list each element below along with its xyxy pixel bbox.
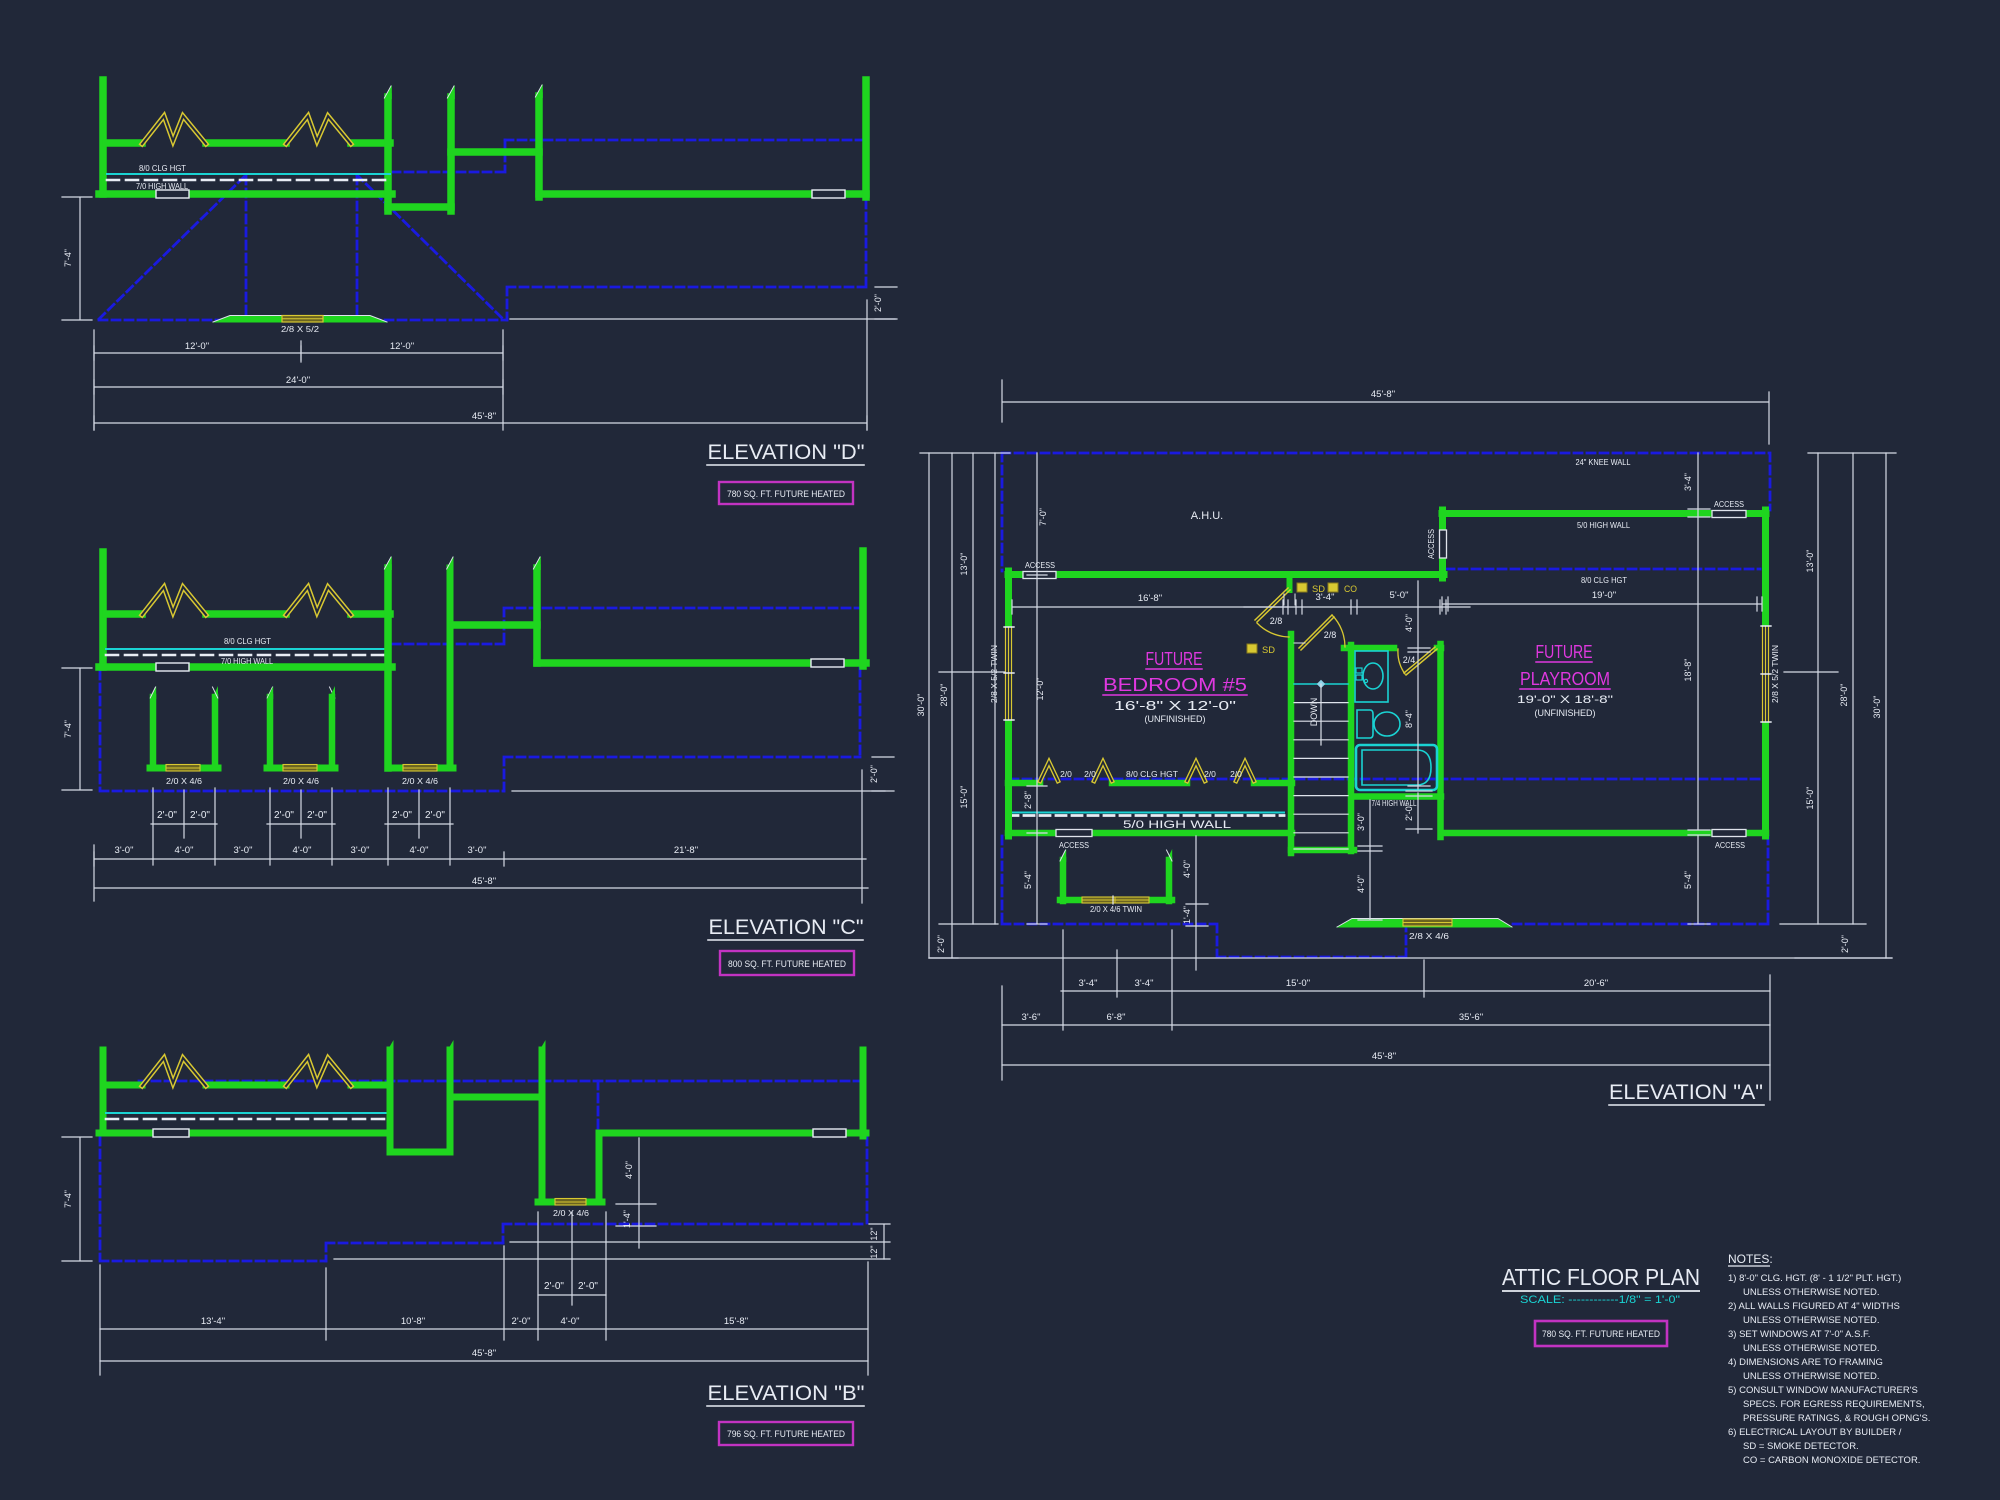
wire: elev B blue dashed ground left: [100, 1137, 326, 1261]
symbol: SD CO detectors at hall: [1297, 583, 1307, 592]
wall: elev D long right bottom wall: [539, 190, 866, 198]
wall: elev C H bar: [453, 621, 537, 629]
svg-text:CO: CO: [1344, 584, 1357, 594]
svg-text:20'-6": 20'-6": [1584, 978, 1608, 989]
wire: elev B blue dashed middle step: [326, 1243, 503, 1261]
svg-text:2'-0": 2'-0": [873, 294, 883, 312]
wire: elev B white dashed line: [106, 1118, 387, 1121]
svg-text:PRESSURE RATINGS, & ROUGH OPNG: PRESSURE RATINGS, & ROUGH OPNG'S.: [1743, 1413, 1930, 1424]
svg-text:12'-0": 12'-0": [390, 341, 414, 352]
svg-text:A.H.U.: A.H.U.: [1191, 510, 1223, 522]
window: elev B window in right band: [813, 1129, 846, 1137]
wall: plan 5/0 high wall south: [1008, 830, 1292, 837]
svg-text:45'-8": 45'-8": [472, 1348, 496, 1359]
wall: plan bedroom south wall segments: [1008, 780, 1292, 787]
wire: elev C blue dashed ground left: [100, 671, 504, 791]
svg-text:796 SQ. FT. FUTURE HEATED: 796 SQ. FT. FUTURE HEATED: [727, 1429, 845, 1440]
window: elev C window in 7/0 wall: [156, 663, 189, 671]
dim: elev D row 12'-0" / 12'-0": [94, 346, 503, 360]
svg-text:12'-0": 12'-0": [1035, 678, 1045, 701]
dim: elev C main row 3'-0"/4'-0": [94, 852, 866, 866]
svg-text:24'-0": 24'-0": [286, 375, 310, 386]
window: plan access hatch top-left: [1023, 572, 1056, 579]
svg-text:12": 12": [869, 1245, 879, 1258]
wire: plan cyan 5/0 high wall line: [1008, 812, 1284, 814]
label: magenta box 780 SQ FT plan: [1535, 1321, 1667, 1346]
window: elev C window in right band: [811, 659, 844, 667]
window: elev C U-window 3 right jamb full height wall: [447, 568, 454, 768]
svg-text:8/0 CLG HGT: 8/0 CLG HGT: [1581, 575, 1627, 585]
wall: elev D top plate band segments: [106, 139, 390, 147]
svg-text:16'-8" X 12'-0": 16'-8" X 12'-0": [1114, 699, 1236, 713]
svg-text:2'-0": 2'-0": [1840, 935, 1850, 953]
wire: elev C blue dashed right drop and base: [504, 668, 860, 791]
svg-text:ACCESS: ACCESS: [1714, 500, 1744, 509]
wall: elev B bottom band left: [99, 1130, 390, 1137]
svg-text:13'-0": 13'-0": [1805, 550, 1815, 573]
svg-text:BEDROOM #5: BEDROOM #5: [1103, 675, 1247, 695]
svg-text:7'-4": 7'-4": [63, 1190, 73, 1208]
svg-text:2'-0": 2'-0": [157, 810, 177, 821]
wall: plan stairwell right wall: [1348, 645, 1355, 851]
window: elev B window in bottom band: [153, 1129, 189, 1137]
wall: elev C spike B: [533, 568, 541, 663]
wall: elev C right wall: [859, 551, 867, 666]
svg-text:PLAYROOM: PLAYROOM: [1520, 669, 1610, 689]
svg-text:19'-0": 19'-0": [1592, 590, 1616, 601]
svg-text:7'-4": 7'-4": [63, 249, 73, 267]
svg-text:12": 12": [869, 1227, 879, 1240]
svg-text:15'-0": 15'-0": [959, 786, 969, 809]
svg-text:2'-0": 2'-0": [936, 935, 946, 953]
svg-text:21'-8": 21'-8": [674, 845, 698, 856]
wire: elev D blue dashed hip diagonal right: [357, 175, 504, 320]
wall: plan bathroom bottom wall: [1354, 793, 1441, 800]
label: magenta box 796 SQ FT: [719, 1422, 853, 1445]
wire: elev B blue dashed top plate line: [139, 1080, 862, 1083]
wire: elev D white dashed 7/0 high wall line: [107, 179, 390, 182]
dim: plan 4'-0" 8'-4" vertical at bath: [1408, 581, 1430, 789]
svg-text:2/8 X 5/2 TWIN: 2/8 X 5/2 TWIN: [1770, 645, 1780, 703]
dim: elev D extension lines: [94, 330, 503, 430]
wall: plan bathroom corner at door: [1437, 645, 1441, 652]
wall: elev C tall middle wall: [384, 568, 392, 768]
svg-text:30'-0": 30'-0": [916, 694, 926, 717]
svg-text:45'-8": 45'-8": [472, 411, 496, 422]
dim: plan bottom row 3'-4" 3'-4" 15'-0" 20'-6": [1061, 990, 1770, 992]
svg-text:3'-4": 3'-4": [1079, 978, 1098, 989]
wall: elev D middle spike wall 1: [384, 97, 392, 211]
svg-text:ACCESS: ACCESS: [1059, 841, 1089, 850]
window: plan dormer window 2/0x4/6 twin (bedroom south): [1063, 860, 1169, 901]
svg-text:28'-0": 28'-0": [1839, 684, 1849, 707]
window: elev B yellow dormer zigzag 2: [286, 1058, 351, 1086]
wall: elev B left wall: [100, 1050, 107, 1133]
svg-text:15'-0": 15'-0": [1805, 787, 1815, 810]
svg-text:2/8 X 5/2 TWIN: 2/8 X 5/2 TWIN: [989, 645, 999, 703]
wall: elev B long right bottom wall: [599, 1130, 866, 1137]
svg-text:2/8 X 5/2: 2/8 X 5/2: [281, 324, 319, 334]
dim: elev B 4'-0" / 1'-4" vertical: [616, 1138, 656, 1248]
window: plan left wall 2/8x5/2 twin: [1004, 627, 1013, 720]
wire: elev C blue dashed upper right line: [392, 608, 859, 644]
wall: elev B right wall: [860, 1050, 867, 1136]
dim: elev B main row: [100, 1328, 868, 1330]
svg-text:8'-4": 8'-4": [1404, 710, 1414, 728]
wire: elev D blue dashed ridge line upper: [505, 139, 863, 142]
svg-text:4'-0": 4'-0": [410, 845, 429, 856]
svg-text:3'-0": 3'-0": [1356, 813, 1366, 831]
dim: plan 2'-0" vertical at bath wall: [1406, 791, 1432, 833]
wire: elev C white dashed 7/0 line: [106, 654, 390, 657]
wire: plan blue dashed roof outline top: [1002, 453, 1770, 571]
svg-text:45'-8": 45'-8": [472, 876, 496, 887]
svg-text:SCALE: ------------1/8" = 1'-0: SCALE: ------------1/8" = 1'-0": [1520, 1294, 1680, 1306]
wall: elev C left wall: [99, 552, 107, 667]
svg-text:ELEVATION "A": ELEVATION "A": [1609, 1081, 1763, 1104]
svg-text:UNLESS OTHERWISE NOTED.: UNLESS OTHERWISE NOTED.: [1743, 1287, 1880, 1298]
svg-text:45'-8": 45'-8": [1372, 1051, 1396, 1062]
wire: elev B blue dashed hidden jamb: [597, 1081, 600, 1130]
svg-text:4'-0": 4'-0": [624, 1161, 634, 1179]
stairs: direction line and DOWN label: [1320, 684, 1322, 745]
dim: elev B right 12" 12" stack: [869, 1224, 890, 1259]
window: elev D 2/8x5/2 plan window trapezoid: [212, 316, 388, 323]
svg-text:ACCESS: ACCESS: [1715, 841, 1745, 850]
svg-text:NOTES:: NOTES:: [1728, 1252, 1773, 1266]
svg-text:2/0: 2/0: [1084, 769, 1096, 779]
svg-text:SD: SD: [1262, 645, 1276, 655]
svg-text:2/8: 2/8: [1270, 616, 1283, 626]
fixture: toilet bowl: [1374, 712, 1400, 736]
wire: elev D blue dashed step at x505: [392, 140, 505, 172]
svg-text:10'-8": 10'-8": [401, 1316, 425, 1327]
svg-text:ELEVATION "D": ELEVATION "D": [708, 441, 865, 464]
fixture: bath tub: [1356, 745, 1437, 790]
dim: elev C white base line right: [512, 790, 885, 792]
svg-text:8/0 CLG HGT: 8/0 CLG HGT: [1126, 769, 1178, 779]
fixture: toilet tank: [1357, 710, 1373, 738]
svg-text:ACCESS: ACCESS: [1025, 561, 1055, 570]
door: plan hall door 2/8 leaf and swing: [1299, 615, 1334, 650]
svg-text:3'-0": 3'-0": [468, 845, 487, 856]
svg-text:ELEVATION "C": ELEVATION "C": [709, 916, 864, 939]
svg-text:UNLESS OTHERWISE NOTED.: UNLESS OTHERWISE NOTED.: [1743, 1371, 1880, 1382]
svg-text:16'-8": 16'-8": [1138, 593, 1162, 604]
label: magenta box 800 SQ FT: [720, 951, 854, 975]
dim: plan left vertical lines: [929, 453, 995, 958]
svg-text:780 SQ. FT. FUTURE HEATED: 780 SQ. FT. FUTURE HEATED: [727, 489, 845, 500]
dim: elev C right 2'-0": [862, 757, 894, 903]
dim: plan 3'-4" 5'-0" row: [1244, 600, 1470, 614]
svg-text:800 SQ. FT. FUTURE HEATED: 800 SQ. FT. FUTURE HEATED: [728, 959, 846, 970]
dim: elev C left height 7'-4": [62, 668, 92, 790]
window: elev C U-window 2 sill: [267, 765, 335, 772]
svg-text:2/0 X 4/6: 2/0 X 4/6: [166, 776, 202, 786]
svg-text:(UNFINISHED): (UNFINISHED): [1145, 714, 1206, 724]
svg-text:5/0 HIGH WALL: 5/0 HIGH WALL: [1123, 819, 1231, 831]
svg-text:2/0: 2/0: [1060, 769, 1072, 779]
dim: plan bottom base line: [929, 957, 1892, 959]
wall: elev C 7/0 wall bottom band: [99, 663, 392, 671]
wire: plan blue dashed 8/0 clg line south: [1010, 778, 1760, 781]
wall: elev B middle wall 2: [447, 1050, 454, 1152]
svg-text:3'-4": 3'-4": [1683, 473, 1693, 491]
dim: elev D white base line: [510, 318, 895, 320]
dim: plan right vertical lines: [1818, 453, 1886, 958]
svg-text:5'-4": 5'-4": [1683, 871, 1693, 889]
svg-text:ELEVATION "B": ELEVATION "B": [708, 1382, 865, 1405]
svg-text:4'-0": 4'-0": [293, 845, 312, 856]
window: elev B deep window left jamb: [539, 1097, 546, 1202]
window: elev C U-window 2 jambs: [270, 697, 332, 768]
svg-text:(UNFINISHED): (UNFINISHED): [1535, 708, 1596, 718]
svg-text:1'-4": 1'-4": [1182, 906, 1192, 924]
dim: elev B white base lines: [334, 1242, 890, 1259]
wall: plan playroom right wall: [1762, 510, 1769, 836]
svg-text:2/0: 2/0: [1230, 769, 1242, 779]
svg-text:2/0 X 4/6: 2/0 X 4/6: [283, 776, 319, 786]
wire: elev C cyan 8/0 ceiling line: [106, 648, 390, 650]
svg-text:FUTURE: FUTURE: [1536, 642, 1593, 662]
window: plan access hatch playroom south: [1712, 830, 1746, 837]
svg-text:2/0 X 4/6: 2/0 X 4/6: [402, 776, 438, 786]
dim: plan 16'-8" row: [1012, 600, 1288, 614]
window: elev C yellow dormer zigzag 2: [286, 587, 351, 615]
wall: elev D middle spike wall 2: [447, 97, 455, 211]
svg-text:SD = SMOKE DETECTOR.: SD = SMOKE DETECTOR.: [1743, 1441, 1859, 1452]
svg-text:4'-0": 4'-0": [1182, 860, 1192, 878]
dim: elev C window extension lines: [153, 788, 450, 865]
svg-text:45'-8": 45'-8": [1371, 389, 1395, 400]
window: elev B deep window right jamb: [596, 1133, 603, 1202]
svg-text:2) ALL WALLS FIGURED AT 4" WI: 2) ALL WALLS FIGURED AT 4" WIDTHS: [1728, 1301, 1900, 1312]
label: magenta box 780 SQ FT: [719, 482, 853, 504]
dim: elev B left height 7'-4": [62, 1137, 92, 1261]
wire: elev D blue dashed ground line left: [99, 319, 507, 322]
svg-text:7'-4": 7'-4": [63, 720, 73, 738]
door: plan bedroom door 2/8 leaf and swing: [1255, 588, 1290, 622]
svg-text:4'-0": 4'-0": [1404, 614, 1414, 632]
wall: plan playroom left upper wall: [1439, 510, 1446, 578]
wire: plan blue dashed 8/0 clg line playroom top: [1446, 568, 1760, 571]
wall: plan left wall: [1005, 571, 1012, 836]
wall: elev B top plate band segments: [106, 1082, 390, 1089]
window: plan playroom south window 2/8x4/6 trapezoid: [1336, 919, 1513, 928]
wire: elev B blue dashed right drop: [503, 1137, 867, 1243]
dim: plan bottom extension verticals: [1002, 930, 1770, 1100]
svg-text:30'-0": 30'-0": [1872, 696, 1882, 719]
svg-text:ATTIC FLOOR PLAN: ATTIC FLOOR PLAN: [1502, 1264, 1700, 1290]
wire: elev D blue dashed vertical hip projections: [246, 176, 357, 319]
dim: elev D left height 7'-4": [62, 197, 92, 320]
svg-text:4) DIMENSIONS ARE TO FRAMING: 4) DIMENSIONS ARE TO FRAMING: [1728, 1357, 1883, 1368]
svg-text:24" KNEE WALL: 24" KNEE WALL: [1576, 457, 1631, 467]
dim: plan 3'-0" 4'-0" vertical at stairs: [1358, 800, 1382, 920]
svg-text:7/0 HIGH WALL: 7/0 HIGH WALL: [136, 182, 188, 191]
window: plan playroom right 2/8x5/2 twin: [1761, 626, 1770, 722]
svg-text:2'-0": 2'-0": [425, 810, 445, 821]
dim: elev C 2'-0" pair rows: [151, 823, 453, 825]
svg-text:3'-0": 3'-0": [351, 845, 370, 856]
svg-text:2/8: 2/8: [1324, 630, 1337, 640]
svg-text:SPECS. FOR EGRESS REQUIREMENTS: SPECS. FOR EGRESS REQUIREMENTS,: [1743, 1399, 1925, 1410]
svg-text:19'-0" X 18'-8": 19'-0" X 18'-8": [1517, 694, 1613, 706]
dim: plan bottom row 3'-6" 6'-8" 35'-6": [1002, 1024, 1770, 1026]
wall: elev B right spike: [539, 1050, 546, 1097]
svg-text:15'-8": 15'-8": [724, 1316, 748, 1327]
svg-text:FUTURE: FUTURE: [1146, 649, 1203, 669]
svg-text:7'-0": 7'-0": [1038, 508, 1048, 526]
dim: elev D row 24'-0": [94, 380, 503, 394]
svg-text:5'-4": 5'-4": [1023, 871, 1033, 889]
window: elev D window in right wall band: [812, 190, 845, 198]
dim: elev C row 45'-8": [94, 845, 868, 901]
window: elev C U-window 1 jambs: [153, 697, 215, 768]
svg-text:1) 8'-0" CLG. HGT. (8' - 1 1/: 1) 8'-0" CLG. HGT. (8' - 1 1/2" PLT. HGT…: [1728, 1273, 1901, 1284]
wall: elev C long right bottom wall: [537, 659, 866, 667]
wall: elev B H bar: [450, 1094, 542, 1101]
svg-text:3'-4": 3'-4": [1316, 592, 1335, 603]
wall: elev D 7/0 high wall bottom band: [99, 190, 392, 198]
wire: elev D blue dashed ground line right raised: [507, 200, 866, 320]
wall: elev D right wall: [862, 80, 870, 197]
dim: elev B extension lines: [100, 1212, 868, 1375]
svg-text:5'-0": 5'-0": [1390, 590, 1409, 601]
stairs: treads: [1294, 703, 1348, 849]
svg-text:2/0 X 4/6 TWIN: 2/0 X 4/6 TWIN: [1090, 904, 1142, 914]
wall: plan hall/bath top wall: [1344, 645, 1394, 652]
dim: elev D right 2'-0": [867, 287, 897, 430]
svg-text:2'-0": 2'-0": [578, 1281, 598, 1292]
svg-text:DOWN: DOWN: [1309, 698, 1319, 727]
svg-text:ACCESS: ACCESS: [1427, 529, 1436, 559]
dim: plan 4'-0" 1'-4" vertical at bedroom dormer: [1186, 836, 1208, 970]
dim: plan 19'-0" row: [1442, 597, 1762, 611]
dim: plan left 7'-0" and 12'-0" vertical: [1027, 453, 1047, 786]
svg-text:2/4: 2/4: [1403, 655, 1416, 665]
svg-text:4'-0": 4'-0": [175, 845, 194, 856]
svg-text:2'-0": 2'-0": [274, 810, 294, 821]
window: elev B yellow dormer zigzag 1: [142, 1058, 206, 1086]
symbol: SD detector bedroom: [1247, 644, 1257, 653]
door: plan bath door 2/4 leaf and swing: [1404, 647, 1437, 675]
stairs: cyan break line with diamond: [1294, 683, 1348, 685]
window: elev D window in 7/0 wall: [156, 190, 189, 198]
fixture: bath vanity: [1355, 651, 1388, 702]
wall: plan door stub at bedroom: [1287, 574, 1293, 590]
svg-text:3'-0": 3'-0": [234, 845, 253, 856]
svg-text:35'-6": 35'-6": [1459, 1012, 1483, 1023]
svg-text:3'-0": 3'-0": [115, 845, 134, 856]
svg-text:2'-0": 2'-0": [307, 810, 327, 821]
wall: elev C top plate band segments: [106, 610, 390, 618]
svg-text:780 SQ. FT. FUTURE HEATED: 780 SQ. FT. FUTURE HEATED: [1542, 1329, 1660, 1340]
window: elev D yellow dormer zigzag 2: [286, 116, 351, 144]
svg-text:13'-4": 13'-4": [201, 1316, 225, 1327]
svg-text:2'-0": 2'-0": [869, 765, 879, 783]
dim: plan right 5'-4" vertical: [1688, 835, 1710, 924]
wall: plan playroom top wall 5/0 high wall: [1442, 510, 1766, 517]
svg-text:5/0 HIGH WALL: 5/0 HIGH WALL: [1577, 520, 1630, 530]
svg-text:CO = CARBON MONOXIDE DETECTOR.: CO = CARBON MONOXIDE DETECTOR.: [1743, 1455, 1920, 1466]
wall: elev D H bar between spikes 2 and 3: [451, 148, 539, 156]
dim: plan bottom row 45'-8": [1002, 1064, 1770, 1066]
svg-text:8/0 CLG HGT: 8/0 CLG HGT: [224, 637, 271, 646]
svg-text:15'-0": 15'-0": [1286, 978, 1310, 989]
svg-text:2'-0": 2'-0": [392, 810, 412, 821]
svg-text:13'-0": 13'-0": [959, 553, 969, 576]
window: plan access hatch bedroom south: [1056, 830, 1092, 837]
svg-text:4'-0": 4'-0": [1356, 875, 1366, 893]
wall: plan stairwell left wall: [1288, 634, 1295, 853]
wall: elev D left wall: [99, 80, 107, 194]
dim: elev B 2'-0" pair row: [538, 1294, 606, 1296]
svg-text:28'-0": 28'-0": [939, 684, 949, 707]
svg-text:2'-0": 2'-0": [1404, 803, 1414, 821]
wall: elev B middle wall 1: [387, 1050, 394, 1152]
svg-text:8/0 CLG HGT: 8/0 CLG HGT: [139, 164, 186, 173]
svg-text:12'-0": 12'-0": [185, 341, 209, 352]
dim: plan 3'-4" knee wall vertical: [1688, 453, 1710, 830]
wall: plan stair bottom wall: [1291, 847, 1354, 854]
svg-text:7/0 HIGH WALL: 7/0 HIGH WALL: [221, 657, 273, 666]
wire: elev D blue dashed hip diagonal left: [99, 175, 246, 319]
svg-text:1'-4": 1'-4": [622, 1210, 632, 1228]
svg-text:2'-0": 2'-0": [512, 1316, 531, 1327]
wire: plan blue dashed bottom outline: [1002, 836, 1768, 957]
svg-text:4'-0": 4'-0": [561, 1316, 580, 1327]
svg-text:5) CONSULT WINDOW MANUFACTURER: 5) CONSULT WINDOW MANUFACTURER'S: [1728, 1385, 1918, 1396]
svg-text:UNLESS OTHERWISE NOTED.: UNLESS OTHERWISE NOTED.: [1743, 1315, 1880, 1326]
fixture: bath sink: [1363, 663, 1383, 689]
svg-text:2'-8": 2'-8": [1023, 791, 1033, 809]
svg-text:3'-6": 3'-6": [1022, 1012, 1041, 1023]
wall: plan playroom south 5/0 wall: [1441, 830, 1766, 837]
wall: elev B notch bottom: [390, 1149, 450, 1156]
dim: plan left 2'-8" 5'-4" vertical: [1027, 786, 1047, 924]
wall: elev D notch bottom between spikes: [388, 203, 451, 211]
window: plan access hatch playroom left: [1440, 530, 1447, 558]
window: elev D yellow dormer zigzag 1: [142, 116, 206, 144]
svg-text:6'-8": 6'-8": [1107, 1012, 1126, 1023]
svg-text:3) SET WINDOWS AT 7'-0" A.S.F.: 3) SET WINDOWS AT 7'-0" A.S.F.: [1728, 1329, 1870, 1340]
svg-text:2/8 X 4/6: 2/8 X 4/6: [1409, 931, 1449, 941]
wire: elev D cyan 8/0 ceiling line: [107, 173, 390, 175]
svg-text:6) ELECTRICAL LAYOUT BY BUILDE: 6) ELECTRICAL LAYOUT BY BUILDER /: [1728, 1427, 1902, 1438]
dim: elev D row 45'-8": [94, 416, 867, 430]
window: elev C yellow dormer zigzag 1: [142, 587, 206, 615]
svg-text:18'-8": 18'-8": [1683, 659, 1693, 682]
svg-text:2/0: 2/0: [1204, 769, 1216, 779]
window: elev C U-window 3 sill: [388, 765, 453, 772]
dim: plan top 45'-8": [1002, 380, 1769, 444]
window: plan bedroom dormer zigzag window 2: [1187, 762, 1205, 781]
window: elev B deep window sill: [538, 1199, 602, 1206]
svg-text:2/0 X 4/6: 2/0 X 4/6: [553, 1208, 589, 1218]
dim: elev B row 45'-8": [100, 1360, 868, 1362]
svg-text:3'-4": 3'-4": [1135, 978, 1154, 989]
wall: elev D spike wall 3: [535, 96, 543, 197]
window: plan bedroom dormer zigzag window 1: [1040, 762, 1058, 781]
wall: plan bathroom right wall: [1437, 644, 1444, 837]
wall: plan hall top wall: [1008, 571, 1444, 578]
svg-text:2'-0": 2'-0": [190, 810, 210, 821]
wire: elev B cyan ceiling line: [106, 1112, 387, 1114]
wire: plan white dashed 5/0 high wall line: [1008, 814, 1284, 817]
window: elev C U-window 1 sill: [150, 765, 218, 772]
window: plan access hatch playroom top: [1712, 511, 1746, 518]
